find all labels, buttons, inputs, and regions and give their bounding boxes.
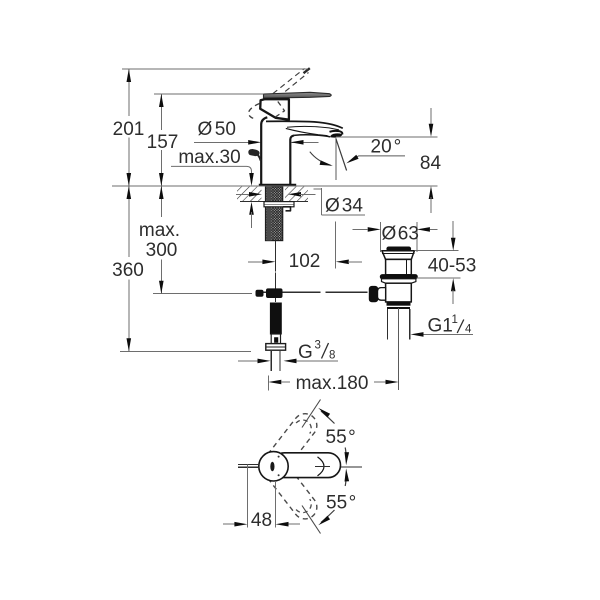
pull rod cross vertical — [274, 273, 276, 303]
top view pin — [238, 465, 259, 468]
dimension G3/8 left line — [238, 360, 258, 362]
dimension 40-53 lower arrow — [451, 278, 456, 291]
drain body bottom rim — [387, 302, 410, 308]
drain tailpipe — [388, 309, 410, 340]
dimension Ø34 left arrow — [249, 192, 262, 197]
dimension 84 lower arrow — [429, 186, 434, 199]
dimension 201 vertical line lower segment — [128, 138, 130, 187]
label 157 — [147, 132, 179, 153]
drain side port — [377, 288, 386, 301]
svg-text:8: 8 — [329, 349, 335, 361]
dimension 102 right line — [348, 261, 362, 263]
horizontal pop-up rod right segment — [326, 291, 368, 293]
svg-text:G1: G1 — [428, 316, 453, 337]
drain O-ring — [380, 275, 417, 279]
label 20 deg leader arrow — [346, 155, 358, 164]
label max.180 — [296, 373, 369, 394]
O34 leader stub — [314, 188, 322, 190]
extension tick 48 left — [246, 464, 248, 527]
dimension 40-53 lower line — [452, 290, 454, 304]
label max.30 — [178, 147, 240, 168]
dimension max.30 lower arrow — [249, 202, 254, 215]
55 deg lower arc top arrow — [345, 468, 350, 481]
top view knob circle — [259, 452, 288, 481]
dimension 157 vertical line lower segment — [160, 150, 162, 186]
svg-text:55°: 55° — [326, 493, 356, 514]
extension tick Ø63 right — [416, 222, 418, 252]
dimension Ø63 right line — [430, 228, 438, 230]
drain flange — [382, 251, 415, 260]
top view screw dots — [278, 456, 280, 477]
20 deg sweep arc arrow — [320, 160, 333, 165]
label Ø63 — [382, 224, 419, 245]
drain lower body — [386, 283, 412, 302]
dimension Ø34 left line — [236, 193, 251, 195]
svg-text:201: 201 — [113, 119, 145, 140]
drain rod knob — [369, 286, 377, 301]
dimension 40-53 upper arrow — [451, 238, 456, 251]
horizontal pop-up rod left segment — [257, 291, 321, 293]
leader Ø34 underline — [322, 214, 366, 216]
extension tick 48 right — [275, 481, 277, 528]
55 deg upper arc top arrow — [318, 408, 330, 418]
label 360 — [112, 260, 144, 281]
dimension 40-53 upper line — [452, 221, 454, 238]
55 deg lower sweep segment A — [321, 510, 335, 523]
dimension 48 right arrow — [276, 522, 289, 527]
dimension Ø63 left arrow — [368, 227, 381, 232]
label 48 — [251, 510, 272, 531]
spout inner top line — [287, 126, 339, 129]
svg-text:84: 84 — [420, 153, 442, 174]
top view lever — [272, 453, 341, 478]
extension line: top of raised lever (y=69) — [122, 68, 308, 70]
lever handle bar — [264, 92, 332, 98]
dimension 84 upper arrow — [429, 124, 434, 137]
dimension max.300 vertical line upper segment — [160, 186, 162, 217]
drain centerline — [397, 308, 399, 390]
dimension G3/8 right arrow — [284, 359, 297, 364]
label max. — [139, 220, 180, 241]
dimension 84 upper line — [430, 108, 432, 125]
raised lever tip mark — [304, 68, 310, 73]
55 deg lower arc bottom arrow — [318, 516, 330, 526]
dimension 201 vertical line upper segment — [128, 69, 130, 116]
dimension 157 vertical line upper segment — [160, 94, 162, 130]
dashed grip rotated down 55 deg — [268, 464, 317, 519]
dimension Ø63 right arrow — [417, 227, 430, 232]
extension line flange top right — [414, 250, 458, 252]
extension line: bottom level for 360 (y=351.3) — [120, 350, 251, 352]
hose lower white section — [271, 334, 280, 344]
svg-text:157: 157 — [147, 132, 179, 153]
svg-text:48: 48 — [251, 510, 272, 531]
top view stem mark — [270, 462, 274, 471]
top view lever inner arc — [318, 457, 325, 476]
spout underside curve — [294, 135, 330, 137]
dimension Ø50 right line — [291, 141, 319, 143]
55 deg upper axis line — [302, 400, 321, 428]
centerline below clamp — [274, 303, 276, 320]
spout top curve — [266, 121, 343, 128]
supply pipe below nut — [271, 351, 280, 371]
dimension max.30 upper arrow — [249, 173, 254, 186]
aerator at spout tip — [330, 131, 343, 137]
dimension 157 top arrow — [159, 94, 164, 107]
dashed grip rotated up 55 deg — [268, 414, 317, 469]
dimension 360 top arrow — [127, 186, 132, 199]
deck bottom line — [240, 201, 308, 203]
dimension max.30 lower line — [251, 212, 253, 228]
svg-text:1: 1 — [452, 314, 458, 326]
extension line: top of closed lever (y=94) — [154, 93, 264, 95]
svg-text:Ø34: Ø34 — [325, 196, 363, 217]
label Ø50 — [198, 119, 236, 140]
pull rod upper — [274, 241, 276, 272]
dimension Ø50 left line — [194, 141, 255, 143]
faucet body right edge — [290, 135, 294, 184]
20 deg vertical reference line — [335, 138, 337, 180]
svg-text:55°: 55° — [326, 427, 356, 448]
dashed raised lever line lower — [271, 73, 309, 104]
dimension Ø34 right arrow — [288, 192, 301, 197]
dimension max.30 underline — [171, 166, 252, 175]
svg-text:max.180: max.180 — [296, 373, 369, 394]
svg-text:4: 4 — [465, 324, 472, 336]
mounting washer — [264, 202, 294, 207]
leader Ø34 vertical — [321, 188, 323, 215]
extension line: countertop surface (y=186) — [112, 185, 438, 187]
label 201 — [113, 119, 145, 140]
svg-text:Ø50: Ø50 — [198, 119, 236, 140]
svg-text:20°: 20° — [371, 137, 402, 158]
55 deg lower sweep segment B — [344, 481, 347, 486]
label 300 — [146, 240, 178, 261]
pop-up rod knob — [249, 150, 261, 161]
dimension Ø50 right arrow — [291, 140, 304, 145]
dimension max.300 vertical line lower segment — [160, 260, 162, 294]
dimension max.180 right line — [374, 381, 386, 383]
dimension G3/8 left arrow — [258, 359, 271, 364]
leader G1 1/4 line — [417, 333, 473, 335]
svg-text:360: 360 — [112, 260, 144, 281]
dimension G3/8 right line — [297, 360, 339, 362]
label G1 1/4 — [428, 314, 473, 337]
svg-text:300: 300 — [146, 240, 178, 261]
extension line: spout outlet level for 84 (y=136.8) — [336, 136, 438, 138]
svg-text:3: 3 — [315, 340, 321, 352]
dimension 48 left line — [223, 523, 234, 525]
flexible hose dark section — [270, 303, 281, 334]
faucet head block — [260, 99, 289, 120]
label 55&#176; upper — [326, 427, 356, 448]
55 deg lower axis line — [302, 506, 321, 534]
dimension 201 bottom arrow — [127, 173, 132, 186]
svg-text:max.: max. — [139, 220, 180, 241]
G3/8 connection nut — [266, 344, 286, 351]
55 deg upper sweep segment A — [321, 411, 335, 424]
washer clamp hook — [283, 207, 291, 211]
extension tick Ø63 left — [380, 222, 382, 252]
dimension 84 lower line — [430, 197, 432, 213]
label 84 — [420, 153, 442, 174]
dimension 360 vertical line upper segment — [128, 186, 130, 257]
label G 3/8 — [298, 340, 335, 364]
dimension 201 top arrow — [127, 69, 132, 82]
55 deg upper arc bottom arrow — [345, 452, 350, 465]
dimension 102 right arrow — [336, 260, 349, 265]
drain plug top — [387, 247, 411, 251]
dimension 102 left arrow — [262, 260, 275, 265]
label Ø34 — [325, 196, 363, 217]
extension line: hose end level for max.300 (y=293.7) — [153, 293, 252, 295]
top view centerline right — [341, 466, 362, 468]
55 deg upper sweep segment B — [344, 448, 347, 453]
svg-text:G: G — [298, 342, 313, 363]
dimension max.180 left line — [281, 381, 290, 383]
dimension 48 left arrow — [234, 522, 247, 527]
deck hatching left — [237, 187, 262, 202]
dimension max.300 bottom arrow — [159, 281, 164, 294]
dimension Ø50 left arrow — [248, 140, 261, 145]
extension line locknut top right — [417, 277, 461, 279]
svg-text:Ø63: Ø63 — [382, 224, 419, 245]
leader G1 1/4 arrow — [411, 332, 424, 337]
20 deg sweep arc — [310, 152, 331, 166]
spout bowl inner line — [286, 128, 328, 135]
dimension max.180 right arrow — [386, 380, 399, 385]
drain locknut — [382, 279, 416, 283]
faucet body left edge — [261, 117, 267, 184]
label 20 deg leader line — [349, 156, 405, 162]
extension tick max.180 left — [267, 376, 269, 391]
dimension 48 right line — [289, 523, 301, 525]
deck hatching right — [285, 187, 308, 202]
dimension max.300 top arrow — [159, 186, 164, 199]
extension line for 102 at spout outlet — [335, 222, 337, 269]
dimension Ø63 left line — [353, 228, 368, 230]
label 40-53 — [428, 256, 477, 277]
top view lever center tick — [315, 465, 330, 467]
20 deg slanted stream line — [336, 138, 347, 170]
dimension Ø34 right line — [299, 193, 316, 195]
dimension 360 vertical line lower segment — [128, 280, 130, 352]
svg-text:40-53: 40-53 — [428, 256, 477, 277]
pop-up rod clamp block — [267, 289, 283, 298]
dimension 102 left line — [248, 261, 263, 263]
pop-up rod left end cap — [256, 290, 263, 296]
label 55&#176; lower — [326, 493, 356, 514]
dashed raised grip outline right — [275, 102, 285, 118]
dimension max.180 left arrow — [268, 380, 281, 385]
dashed raised grip outline left — [249, 104, 260, 120]
dimension 360 bottom arrow — [127, 338, 132, 351]
faucet base line — [259, 184, 296, 187]
dimension 157 bottom arrow — [159, 173, 164, 186]
threaded shank — [266, 187, 283, 241]
label 20 deg — [371, 137, 402, 158]
svg-text:102: 102 — [289, 251, 321, 272]
dashed raised lever line upper — [266, 69, 305, 100]
drain upper body — [386, 259, 412, 274]
svg-text:max.30: max.30 — [178, 147, 240, 168]
label 102 — [289, 251, 321, 272]
